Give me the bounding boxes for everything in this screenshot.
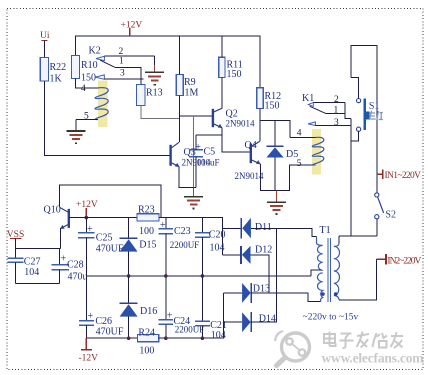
diode D11 [241, 218, 251, 238]
yellow highlight band on relay K2 coil [98, 80, 108, 127]
transformer phase dot right [334, 292, 338, 296]
svg-text:D11: D11 [255, 222, 272, 233]
svg-text:R24: R24 [138, 328, 155, 339]
svg-text:+: + [61, 254, 67, 265]
wire node to Q4 collector [259, 121, 261, 141]
transistor Q3 [171, 142, 180, 167]
wire C5 stem top [195, 135, 197, 150]
wire R22 bottom down and right to Q3 base [45, 81, 170, 155]
wire D13 cathode to transformer bottom lead [251, 293, 320, 302]
wire S1 branch jog to push button top [351, 77, 359, 98]
wire node R9 to Q2 base [179, 115, 212, 117]
svg-text:IN1~220V: IN1~220V [385, 171, 422, 181]
svg-text:2: 2 [334, 95, 339, 105]
watermark CJK glyph 4 (shao) [373, 333, 388, 348]
watermark CJK glyph 2 (zi) [340, 334, 354, 349]
wire Q10 collector loop [60, 185, 161, 218]
svg-text:5: 5 [84, 112, 89, 122]
diode D5 [266, 121, 283, 191]
svg-text:3: 3 [334, 118, 339, 128]
svg-text:S1: S1 [369, 101, 380, 112]
wire transformer primary top feed [339, 235, 377, 237]
label fuwei glyph wei [377, 111, 383, 120]
svg-text:470UF: 470UF [96, 244, 124, 255]
svg-text:1: 1 [119, 57, 124, 67]
relay K2 contact 3 wire [104, 78, 143, 80]
svg-text:C23: C23 [174, 226, 191, 237]
svg-text:100: 100 [139, 226, 154, 237]
power tap IN2~220V [376, 254, 386, 264]
svg-text:2N9014: 2N9014 [235, 171, 264, 181]
svg-text:150: 150 [227, 69, 242, 80]
svg-text:5: 5 [297, 159, 302, 169]
wire R10 bottom to K2 coil pin 4 [76, 79, 99, 88]
switch S2 arm [378, 197, 384, 213]
svg-text:C25: C25 [96, 233, 113, 244]
junction dot bottom rail D16 [127, 336, 131, 340]
capacitor C25 [78, 218, 95, 276]
inductor K1 coil loops [312, 137, 324, 164]
wire gray riser to ground under C5 [192, 116, 194, 187]
wire right winding top lead [338, 236, 340, 243]
resistor R10 [72, 56, 80, 79]
svg-text:+: + [88, 311, 94, 322]
transistor Q2 [213, 108, 223, 128]
svg-text:+12V: +12V [121, 21, 143, 31]
inductor K2 relay coil [95, 88, 108, 120]
wire D11 anode to transformer top lead [251, 228, 317, 236]
wire VSS stem [15, 238, 17, 248]
wire S2 to transformer top node [376, 219, 378, 236]
capacitor C26 [79, 276, 94, 338]
svg-text:-12V: -12V [79, 354, 99, 364]
svg-text:1M: 1M [185, 88, 199, 99]
wire Q2 emitter down with jog to C5 and to Q4 base [222, 128, 250, 152]
watermark CJK glyph 3 (fa) [357, 332, 370, 348]
switch S1 bottom terminal circle [357, 127, 361, 131]
transformer T1 core lines [328, 238, 330, 302]
resistor R23 [137, 214, 159, 221]
svg-text:104: 104 [210, 243, 225, 254]
switch S1 push button bar [364, 98, 366, 129]
junction dot mid rail D15 [127, 274, 131, 278]
svg-text:150: 150 [265, 101, 280, 112]
svg-text:D15: D15 [139, 240, 156, 251]
diode D14 [242, 312, 251, 332]
wire D12 anode down to D13 lead [251, 255, 269, 293]
relay K1 contact 2 wire [313, 101, 345, 103]
junction dot +12V rail [85, 216, 89, 220]
svg-text:~220v to ~15v: ~220v to ~15v [303, 313, 359, 323]
capacitor C5 plates [189, 150, 203, 157]
relay K1 pole arm [310, 106, 326, 113]
relay K2 pole arrowhead [96, 56, 104, 60]
power +12V stem lower [85, 208, 87, 218]
wire S1 top loop [351, 46, 377, 193]
wire Q2 emitter jog to C5 top [196, 134, 222, 136]
ground symbol below C5 and Q3 emitter [184, 187, 203, 208]
wire top rail to R9 [178, 36, 180, 75]
junction dot bottom rail C21 [201, 336, 205, 340]
svg-text:Q4: Q4 [245, 140, 257, 151]
svg-text:100uF: 100uF [197, 158, 220, 168]
svg-text:2200UF: 2200UF [170, 240, 200, 250]
relay K1 contact 1 wire [326, 113, 345, 115]
label fuwei glyph fu [369, 111, 376, 120]
svg-text:T1: T1 [320, 225, 331, 236]
wire S1 bottom jog back to branch [351, 131, 359, 141]
inductor K1 relay coil [290, 137, 315, 139]
zener diode D16 [120, 276, 138, 338]
relay K2 contact 3 arrowhead [95, 75, 104, 79]
resistor R9 [176, 75, 183, 96]
junction dot bottom rail C24 [164, 336, 168, 340]
watermark logo magnifier icon [275, 331, 310, 366]
wire 0V mid rail [86, 275, 311, 277]
relay K2 contact 1 wire to R13 [115, 67, 141, 84]
capacitor C23 [159, 218, 173, 276]
wire K1 contacts junction to S1 branch [345, 102, 351, 118]
svg-text:3: 3 [120, 69, 125, 79]
wire C5 stem bottom [195, 157, 197, 188]
svg-text:K1: K1 [302, 93, 314, 104]
svg-text:+: + [160, 220, 166, 231]
wire D13 left lead [224, 292, 242, 294]
wire -12V bottom rail left of R24 [86, 337, 137, 339]
svg-text:K2: K2 [89, 46, 101, 57]
wire D12 left lead [223, 254, 242, 256]
relay K1 contact 3 wire [315, 124, 350, 126]
capacitor C28 [52, 249, 69, 284]
svg-text:www.elecfans.com: www.elecfans.com [322, 351, 425, 366]
wire +12V top rail [76, 36, 260, 88]
wire C27 C28 bottom link [16, 282, 60, 284]
resistor R12 [257, 88, 263, 109]
svg-text:D16: D16 [140, 306, 157, 317]
relay K1 pole arrowhead [308, 103, 313, 107]
wire top rail to R11 [221, 36, 223, 57]
switch S2 bottom terminal circle [375, 215, 379, 219]
wire D14 cathode up to D11 node [251, 228, 277, 322]
resistor R13 [137, 85, 145, 106]
svg-text:2N9014: 2N9014 [226, 119, 255, 129]
capacitor C21 [195, 276, 210, 338]
svg-text:S2: S2 [385, 210, 396, 221]
svg-text:C20: C20 [209, 230, 226, 241]
switch S2 top terminal circle [375, 193, 379, 197]
wire R12 bottom node [260, 109, 290, 138]
switch S1 button knob [366, 112, 369, 120]
svg-text:1K: 1K [50, 74, 63, 85]
power +12V stem top [129, 28, 131, 36]
node Ui pin bar [41, 40, 47, 42]
diode D13 [242, 283, 251, 303]
wire +12V rail right of R23 to bridge [159, 218, 223, 255]
wire Ui to R22 [44, 41, 46, 58]
transformer phase dot left [321, 292, 325, 296]
resistor R24 [138, 335, 159, 342]
wire right winding bottom to IN2 [339, 259, 377, 300]
svg-text:R9: R9 [184, 77, 196, 88]
svg-text:+12V: +12V [76, 200, 98, 210]
svg-text:C26: C26 [95, 316, 112, 327]
wire D14 left lead [224, 321, 242, 323]
svg-text:100: 100 [139, 346, 154, 357]
svg-text:R13: R13 [146, 88, 163, 99]
resistor R22 [40, 58, 48, 82]
relay K2 contact 2 wire to ground [105, 55, 155, 57]
junction dot mid rail C23 [164, 274, 168, 278]
svg-text:470UF: 470UF [96, 327, 124, 338]
svg-text:D12: D12 [255, 245, 272, 256]
ground symbol at K2 coil pin 5 [66, 120, 85, 144]
transistor Q10 [60, 207, 69, 229]
relay K1 contact 3 arrowhead [308, 122, 315, 126]
resistor R11 [219, 57, 225, 77]
svg-text:R22: R22 [50, 62, 67, 73]
svg-text:470u: 470u [68, 272, 88, 283]
ground symbol at Q4 emitter loop [267, 190, 286, 214]
svg-text:R23: R23 [138, 205, 155, 216]
wire Q3 emitter down to ground node [179, 167, 196, 188]
svg-text:4: 4 [297, 128, 302, 138]
power -12V stem [85, 338, 87, 349]
svg-text:104: 104 [24, 267, 39, 278]
diode D12 [241, 246, 251, 264]
wire Q4 emitter loop to K1 coil pin 5 [260, 164, 315, 190]
svg-text:C5: C5 [204, 147, 216, 158]
wire K2 coil pin 5 to ground [76, 119, 98, 121]
yellow highlight band on relay K1 coil [312, 129, 321, 174]
capacitor C27 [8, 249, 24, 284]
svg-text:+: + [167, 311, 173, 322]
ground symbol at K2 contact 2 [145, 56, 164, 85]
svg-text:Ui: Ui [40, 31, 50, 41]
wire R13 bottom jog (gray) [141, 106, 180, 119]
wire center tap to mid rail [311, 270, 322, 276]
wire +12V rail left of R23 [69, 217, 137, 219]
svg-text:IN2~220V: IN2~220V [387, 257, 421, 267]
svg-text:2: 2 [119, 47, 124, 57]
junction dot mid rail C20 [201, 274, 205, 278]
capacitor C20 [195, 218, 210, 276]
svg-text:+: + [87, 224, 93, 235]
transformer T1 left winding lower group [318, 273, 323, 302]
transformer T1 left winding upper group [317, 237, 323, 271]
wire R9 bottom to Q3 collector [178, 96, 180, 143]
watermark CJK glyph 5 (you) [391, 332, 404, 348]
wire Q10 emitter down [59, 229, 61, 249]
svg-text:C28: C28 [67, 260, 84, 271]
transistor Q4 [251, 141, 261, 164]
capacitor C24 [159, 276, 173, 338]
wire R11 bottom to Q2 collector [221, 78, 223, 109]
zener diode D15 [120, 218, 138, 276]
svg-text:R10: R10 [81, 60, 98, 71]
svg-text:D14: D14 [259, 314, 276, 325]
power VSS pin bar [10, 237, 22, 239]
relay K2 pole arm [100, 60, 115, 67]
watermark CJK glyph 1 (dian) [324, 332, 336, 347]
wire top rail corner to D11 [223, 227, 242, 229]
svg-text:Q10: Q10 [44, 205, 61, 216]
power tap IN1~220V [377, 169, 383, 179]
power -12V pin bar [81, 349, 92, 351]
svg-text:4: 4 [81, 84, 86, 94]
svg-text:150: 150 [81, 73, 96, 84]
wire K1-S1 branch down to transformer feed [350, 118, 352, 236]
wire bottom rail right of R24 to bridge [159, 293, 224, 338]
wire VSS node horizontal [16, 248, 61, 250]
transformer T1 right winding [334, 244, 340, 300]
switch S1 top terminal circle [357, 99, 361, 103]
